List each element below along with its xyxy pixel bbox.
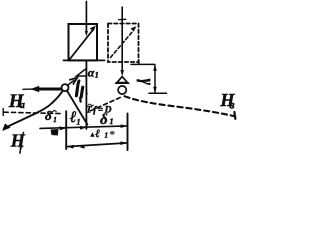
- node: arrow tip at centre line: [80, 126, 86, 130]
- arrow: thick sight arrow to the left (H_a): [23, 88, 33, 90]
- bold stroke pair near axis: [78, 81, 79, 85]
- wire: vertical axis line of dashed box: [121, 7, 123, 70]
- support triangle under dashed box: [117, 77, 128, 83]
- node: end tick at H_b: [234, 112, 235, 119]
- box: left instrument (solid rectangle): [69, 24, 98, 60]
- node: small dots right of strokes: [86, 90, 88, 92]
- node: gamma arrow down: [153, 87, 157, 93]
- node: arrowhead at left end of curve: [2, 123, 10, 131]
- node: arrow right tip row2: [120, 141, 127, 145]
- node: tick on axis above dashed box: [119, 18, 126, 20]
- svg-text:1: 1: [77, 118, 81, 127]
- svg-text:в: в: [229, 97, 235, 111]
- wire: gamma top reference line: [131, 63, 155, 65]
- svg-text:Tf=D: Tf=D: [86, 105, 112, 115]
- wire: vertical axis line above left box: [85, 2, 87, 33]
- wire: gamma bottom reference line: [149, 92, 167, 94]
- wire: vertical axis line below solid box: [85, 60, 87, 129]
- svg-text:1: 1: [110, 117, 114, 126]
- wire: dashed sight line to right (to H_b): [125, 96, 236, 116]
- wire: short line from circle up-right: [67, 80, 74, 85]
- node: open triangle of delta-alpha label: [77, 69, 87, 77]
- node: blob on row2: [80, 145, 85, 149]
- wire: dimension row 1 (l1 and delta1): [40, 126, 128, 128]
- node: arrowhead of diagonal (top right): [90, 26, 96, 32]
- wire: left extension line: [65, 111, 67, 149]
- instrument circle (tripod head): [62, 84, 69, 91]
- node: arrowhead down at bottom of axis: [120, 70, 124, 76]
- svg-text:1: 1: [104, 131, 108, 140]
- node: arrowhead of dashed diagonal: [131, 26, 137, 32]
- node: open arrowhead up-right: [70, 78, 78, 84]
- support circle: [118, 86, 126, 94]
- svg-text:ℓ: ℓ: [95, 128, 100, 140]
- wire: dashed diagonal of dashed box: [111, 31, 134, 58]
- svg-text:δ: δ: [100, 112, 108, 128]
- box: right instrument (dashed rectangle): [108, 24, 139, 63]
- node: arrow left tip row2: [67, 145, 74, 149]
- wire: gamma dimension vertical line: [154, 65, 156, 93]
- node: arrow tip at left extension: [60, 126, 67, 130]
- wire: stub from dashed box corner to gamma line: [138, 60, 140, 65]
- wire: bottom overshoot line under solid box: [64, 59, 105, 61]
- wire: diagonal of solid box: [70, 29, 95, 60]
- svg-text:ℓ: ℓ: [69, 109, 77, 126]
- wire: dashed horizontal (true horizon) at left: [2, 109, 4, 116]
- node: ink blob left of extension line: [51, 129, 59, 136]
- svg-text:1: 1: [53, 116, 57, 124]
- svg-text:δ: δ: [45, 108, 52, 123]
- wire: right extension line: [127, 114, 129, 151]
- wire: dimension row 2 (delta-l1): [66, 143, 127, 147]
- wire: curved sight line from H'f up to instrument: [4, 91, 62, 128]
- svg-text:1: 1: [95, 71, 99, 80]
- wire: dashed sight line to left from support: [89, 98, 120, 112]
- wire: line from circle down-right to dimension line: [67, 90, 88, 124]
- node: small arrowhead on axis inside box: [85, 31, 88, 37]
- svg-text:α: α: [88, 66, 95, 80]
- svg-text:a: a: [20, 100, 25, 111]
- svg-text:γ: γ: [136, 79, 157, 85]
- node: arrow tip at right extension: [121, 124, 128, 128]
- node: gamma arrow up: [153, 65, 157, 71]
